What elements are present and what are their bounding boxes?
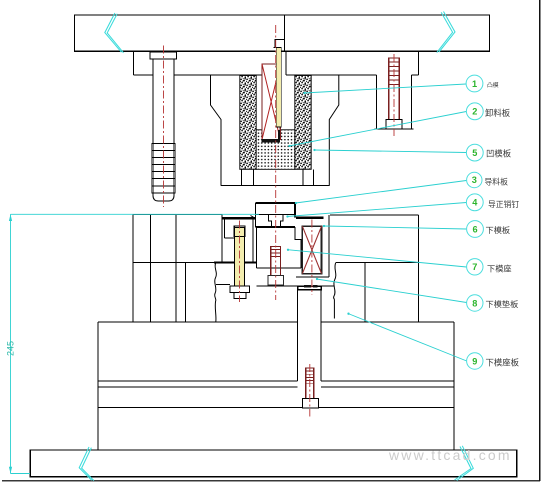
svg-text:1: 1 (472, 79, 477, 89)
centerline bolt B2 (309, 364, 311, 417)
screw S3 head (230, 286, 249, 293)
die insert right edge thick (294, 203, 296, 217)
leader 7 (288, 250, 467, 267)
bolt B1 head (268, 276, 283, 285)
svg-text:8: 8 (472, 298, 477, 308)
break bottom-right (455, 446, 474, 481)
die section insert (X) lower (302, 226, 321, 273)
svg-text:3: 3 (472, 175, 477, 185)
die insert bottom thick (256, 226, 296, 228)
die insert counterbore (269, 215, 284, 227)
screw M1 rib side edges (152, 144, 176, 193)
leader 9 (348, 314, 467, 362)
screw S3 shaft yellow (235, 228, 245, 286)
svg-text:245: 245 (6, 341, 16, 356)
break top-left (105, 13, 124, 53)
red centerlines (164, 25, 395, 417)
break top-right (437, 12, 455, 53)
svg-text:下模座: 下模座 (487, 264, 512, 274)
svg-text:5: 5 (472, 148, 477, 158)
svg-text:9: 9 (472, 356, 477, 366)
svg-text:2: 2 (472, 107, 477, 117)
leader 6 (324, 226, 467, 229)
centerline screw U2 (393, 54, 395, 136)
strip wedge (251, 216, 256, 219)
upper pad plate (134, 51, 419, 75)
centerline die X insert (311, 220, 313, 296)
svg-text:www.ttcad.com: www.ttcad.com (388, 447, 512, 463)
shoe lamination lines (98, 381, 454, 408)
workpiece strip right (296, 216, 324, 218)
lower die center block (256, 227, 301, 268)
svg-text:凸模: 凸模 (487, 81, 499, 89)
base plate (30, 450, 517, 477)
right page border (539, 0, 541, 481)
leader 4 (287, 203, 466, 217)
punch tip right wall (278, 130, 280, 143)
balloon numbers (472, 79, 479, 367)
ground line (2, 480, 540, 482)
punch X diagonals (262, 64, 280, 140)
insert feet (242, 169, 314, 185)
bolt B2 shaft (306, 368, 314, 399)
stripper bottom (221, 185, 329, 187)
punch head step (274, 39, 285, 47)
lower band left (133, 263, 214, 322)
svg-text:4: 4 (472, 198, 478, 208)
die block center (dotted) (256, 130, 295, 170)
punch blade (yellow) (276, 48, 281, 128)
X pocket right wall (296, 215, 329, 277)
ejector column cap (298, 286, 322, 289)
svg-text:导正销钉: 导正销钉 (488, 199, 519, 209)
dimension line (9, 214, 259, 473)
screw U2 shaft (389, 58, 399, 120)
die insert mid line (256, 214, 296, 216)
screw U2 head (386, 120, 402, 130)
svg-text:下模垫板: 下模垫板 (486, 299, 519, 309)
cap tabs (304, 285, 311, 288)
punch body section (red X) U (262, 64, 280, 140)
bolt pocket floor line (256, 285, 334, 287)
wavy break left (215, 263, 217, 322)
svg-text:6: 6 (472, 224, 477, 234)
svg-text:卸料板: 卸料板 (485, 108, 511, 118)
screw M1 shaft (153, 59, 174, 201)
bolt B1 ribs (271, 250, 281, 257)
cyan break marks (79, 12, 473, 481)
svg-text:下模座板: 下模座板 (486, 358, 520, 368)
screw M1 head (150, 52, 177, 59)
workpiece strip left (222, 217, 256, 219)
die insert left edge (255, 203, 257, 227)
screw S3 cap (234, 226, 245, 237)
punch tip thick (261, 139, 279, 143)
leader 2 (289, 112, 466, 147)
svg-text:导料板: 导料板 (485, 177, 509, 187)
die insert top thick (256, 202, 296, 204)
centerline screw M1 (163, 46, 165, 208)
lower right block (330, 215, 418, 322)
leader 1 (304, 84, 466, 93)
bolt B2 ribs (306, 371, 314, 384)
lower X diagonals (302, 226, 321, 273)
wire notch right of punch (285, 52, 287, 76)
screw ledge thick lines (214, 262, 256, 264)
screw U2 threads (389, 62, 399, 85)
punch shank hole edge line (284, 15, 286, 51)
screw S3 head lower (234, 293, 246, 299)
balloons (466, 75, 483, 369)
leader lines (286, 84, 466, 361)
centerline punch (275, 25, 277, 300)
svg-text:7: 7 (472, 262, 477, 272)
lower left guide block (133, 215, 222, 323)
leader 5 (314, 150, 466, 153)
centerline screw S3 (239, 221, 241, 303)
wavy break right (334, 262, 336, 318)
screw S3 pocket top (225, 219, 254, 262)
upper die shoe top plate (75, 15, 490, 51)
screw pocket right (375, 75, 414, 129)
leader 3 (296, 181, 467, 204)
bolt B1 shaft (271, 247, 281, 276)
lower shoe (98, 322, 454, 450)
stripper outer profile right (329, 75, 339, 185)
part labels (485, 81, 520, 368)
screw head pocket left (216, 284, 230, 286)
break bottom-left (79, 447, 94, 481)
stripper insert left (textured) (240, 76, 256, 170)
screw M1 thread ribs (152, 144, 176, 193)
stripper outer profile left (211, 75, 222, 185)
ejector column sides (298, 290, 322, 381)
stripper insert right (textured) (295, 76, 311, 170)
svg-text:凹模板: 凹模板 (486, 149, 512, 159)
leader 8 (317, 279, 467, 303)
svg-text:下模板: 下模板 (486, 225, 511, 235)
bolt B2 head (303, 399, 319, 408)
